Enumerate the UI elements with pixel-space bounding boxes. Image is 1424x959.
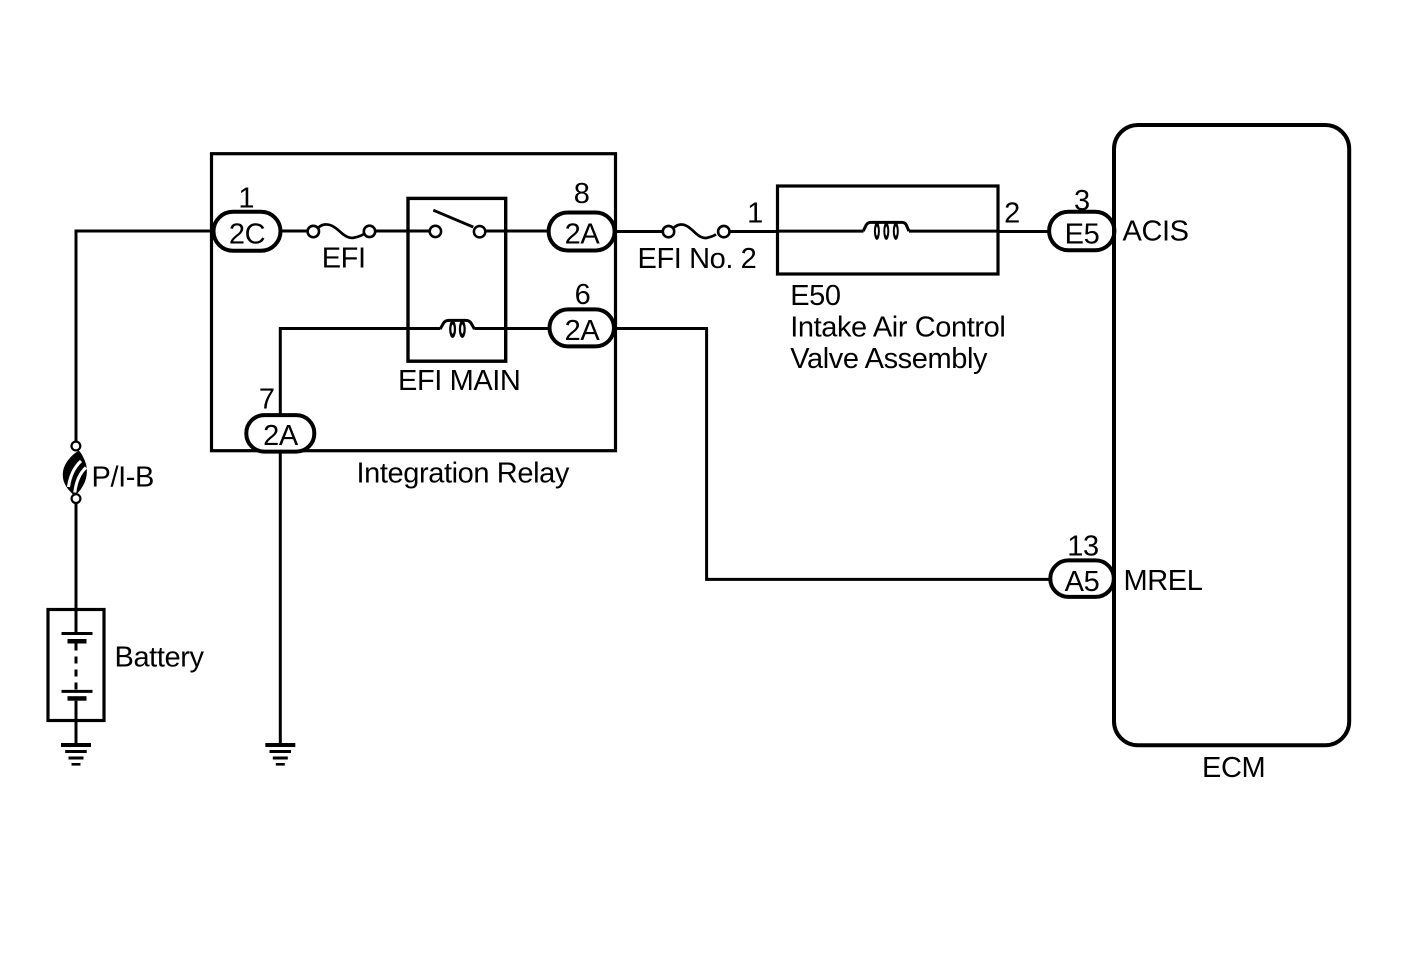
- wire: vertical battery feed down to fusible link: [75, 230, 78, 442]
- wire: E50 right lead: [909, 230, 998, 233]
- relay switch: [430, 210, 486, 237]
- svg-text:MREL: MREL: [1124, 565, 1203, 597]
- connector pin 2A (8): [549, 213, 615, 251]
- svg-text:2A: 2A: [263, 420, 299, 452]
- svg-text:Intake Air Control: Intake Air Control: [790, 312, 1005, 344]
- wire: coil left to pin 2A(7): [280, 329, 440, 417]
- svg-text:EFI No. 2: EFI No. 2: [638, 243, 757, 275]
- E50 box: [778, 186, 999, 274]
- battery: [48, 610, 104, 722]
- label E50 block: [790, 280, 1005, 375]
- wire: MREL from 2A(6) to ECM pin A5: [614, 329, 1051, 580]
- fuse EFI No. 2: [663, 225, 730, 238]
- svg-text:A5: A5: [1065, 566, 1100, 598]
- wire: switch to pin 2A(8): [485, 230, 550, 233]
- svg-text:7: 7: [259, 384, 275, 416]
- relay inner box EFI MAIN: [408, 198, 506, 361]
- wire: battery feed horizontal to pin 2C: [75, 230, 216, 233]
- wire: 2A(8) to EFI No.2 fuse: [615, 230, 662, 233]
- ECM box: [1114, 125, 1349, 745]
- svg-text:13: 13: [1067, 531, 1098, 563]
- svg-text:6: 6: [575, 279, 591, 311]
- svg-text:ECM: ECM: [1202, 752, 1265, 784]
- ground: battery: [61, 743, 91, 766]
- svg-text:Battery: Battery: [115, 642, 205, 674]
- wire: coil right to pin 2A(6): [475, 327, 551, 330]
- svg-text:P/I-B: P/I-B: [92, 462, 154, 494]
- svg-text:2C: 2C: [229, 219, 265, 251]
- wire: battery to ground: [75, 720, 78, 744]
- wire: EFI fuse to relay switch: [375, 230, 430, 233]
- connector pin 2C: [214, 212, 281, 251]
- svg-text:E50: E50: [790, 280, 840, 312]
- wire: fusible link to battery: [75, 503, 78, 633]
- svg-text:8: 8: [574, 178, 590, 210]
- svg-text:EFI: EFI: [322, 243, 366, 275]
- connector pin A5: [1050, 560, 1114, 598]
- svg-text:1: 1: [238, 183, 254, 215]
- fusible link P/I-B: [63, 442, 87, 503]
- wire: 2C to EFI fuse: [281, 230, 309, 233]
- svg-text:EFI MAIN: EFI MAIN: [398, 365, 520, 397]
- coil: intake air control valve: [863, 222, 909, 240]
- fuse EFI: [308, 224, 376, 237]
- connector pin 2A (7): [246, 415, 314, 452]
- svg-text:Integration Relay: Integration Relay: [357, 458, 570, 490]
- svg-text:1: 1: [747, 198, 763, 230]
- svg-text:2: 2: [1004, 198, 1020, 230]
- relay coil EFI MAIN: [440, 320, 474, 338]
- svg-text:2A: 2A: [565, 219, 601, 251]
- wire: E50 left lead: [778, 230, 864, 233]
- Integration Relay box: [212, 154, 616, 451]
- wire: E50 to ECM pin E5: [998, 230, 1050, 233]
- ground: relay: [265, 743, 295, 766]
- svg-text:2A: 2A: [565, 315, 601, 347]
- wire: EFI No.2 fuse to E50: [730, 230, 779, 233]
- connector pin 2A (6): [550, 309, 615, 347]
- svg-text:Valve Assembly: Valve Assembly: [790, 343, 988, 375]
- svg-text:ACIS: ACIS: [1123, 216, 1189, 248]
- connector pin E5: [1049, 212, 1114, 251]
- svg-text:E5: E5: [1065, 219, 1100, 251]
- wire: 2A(7) to ground: [279, 452, 282, 745]
